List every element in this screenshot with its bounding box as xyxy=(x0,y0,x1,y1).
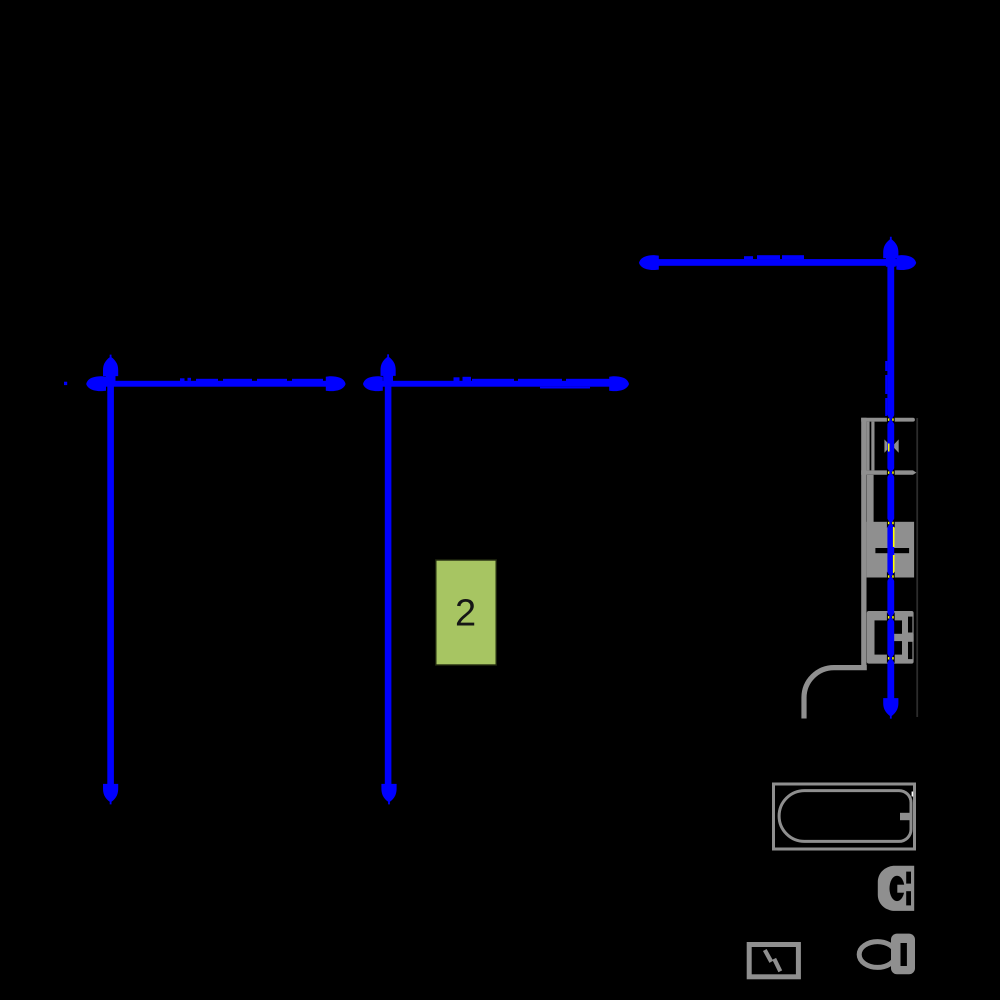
pipe elbow xyxy=(804,668,867,719)
G boiler hole xyxy=(890,876,905,901)
wire: vertical line B xyxy=(385,372,392,789)
toilet tank xyxy=(891,934,915,975)
down arrow B xyxy=(381,784,396,805)
lower unit slot top xyxy=(908,617,912,633)
lower unit body xyxy=(867,611,914,664)
text bumps C horizontal xyxy=(744,255,804,259)
wire: horizontal line C xyxy=(645,259,910,266)
svg-text:2: 2 xyxy=(455,593,476,635)
lower unit mid bar xyxy=(893,634,914,641)
left head C xyxy=(639,255,659,270)
down arrow A xyxy=(103,784,118,805)
toilet tank slot xyxy=(901,943,907,966)
left head A xyxy=(86,376,106,391)
wire: horizontal line A xyxy=(92,381,335,387)
G boiler right slot bottom xyxy=(906,891,911,905)
panel tick 2 xyxy=(774,959,780,972)
radiator inner line 2 xyxy=(871,422,874,471)
G boiler right slot top xyxy=(906,872,911,884)
bathtub inner tub xyxy=(779,791,911,842)
down arrow C xyxy=(883,698,898,719)
sink filled box xyxy=(867,522,915,578)
panel tick 1 xyxy=(765,950,772,962)
text bumps A xyxy=(180,378,323,382)
room rect 2 xyxy=(436,560,496,665)
radiator top line xyxy=(861,418,915,422)
up arrow A xyxy=(103,355,118,385)
up arrow C xyxy=(883,237,898,267)
up arrow B xyxy=(381,354,396,384)
radiator bottom line xyxy=(861,470,916,474)
sink black bar xyxy=(875,548,909,553)
valve bowtie left xyxy=(884,439,890,452)
valve bowtie right xyxy=(892,439,898,452)
wire: vertical line C xyxy=(887,252,894,704)
text bumps B xyxy=(454,377,611,389)
text bumps C vertical xyxy=(885,361,887,416)
toilet bowl xyxy=(859,942,896,968)
bathtub tap tab xyxy=(900,813,910,820)
dark seam line xyxy=(916,418,918,717)
right head C xyxy=(896,255,916,270)
lower unit slot bottom xyxy=(908,642,912,659)
crossing pinches on blue riser xyxy=(887,415,895,425)
lower unit inner black box xyxy=(875,620,903,654)
left head B xyxy=(363,376,383,391)
inner line below radiator xyxy=(867,475,874,522)
G boiler hole tab xyxy=(897,885,905,893)
radiator inner line 1 xyxy=(867,422,870,471)
node: blue speck left of A xyxy=(64,382,67,385)
bathtub white speck xyxy=(912,792,914,797)
wall line xyxy=(861,418,866,670)
wire: horizontal line B xyxy=(369,381,614,387)
wire: vertical line A xyxy=(107,372,114,789)
right head B xyxy=(609,376,629,391)
yellow dashed pipe line xyxy=(888,444,895,574)
bathtub outer rect xyxy=(774,784,915,849)
right head A xyxy=(326,376,346,391)
